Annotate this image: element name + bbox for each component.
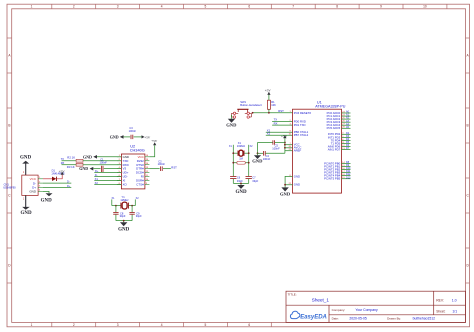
svg-text:4: 4 [161, 323, 163, 327]
svg-text:16MHz: 16MHz [237, 144, 246, 148]
svg-text:RX: RX [274, 121, 278, 125]
resistor R 1M [233, 157, 248, 165]
junction SW1-wire [252, 112, 254, 114]
wire TX to R2 [62, 160, 77, 162]
wire RST to PC6 [253, 112, 293, 114]
switch SW1 Button [232, 100, 262, 118]
ground flag GND left of C3 [110, 134, 130, 139]
wire GND flag to C1 [93, 168, 100, 170]
svg-text:XO: XO [123, 183, 128, 187]
junction R right [248, 162, 250, 164]
svg-text:2: 2 [73, 323, 75, 327]
wire diode to +5V [57, 175, 62, 179]
svg-text:33pF: 33pF [237, 179, 243, 183]
capacitor C1 100nF [100, 157, 108, 172]
svg-text:Date:: Date: [332, 316, 339, 320]
capacitor C6 33pF [230, 176, 243, 184]
wire D+ net [43, 186, 71, 188]
svg-text:4: 4 [161, 5, 163, 9]
svg-text:GND: GND [294, 174, 300, 178]
junction R left [232, 162, 234, 164]
svg-text:12MHz: 12MHz [120, 198, 129, 202]
svg-text:Sheet_1: Sheet_1 [312, 297, 330, 302]
wire rail to VCC [285, 144, 293, 146]
wire caps bottom [233, 182, 248, 184]
wire R2 to TXD [83, 160, 121, 162]
svg-text:100nF: 100nF [129, 129, 137, 133]
svg-text:30pF: 30pF [136, 214, 142, 218]
power flag +5V right of C3 [134, 135, 151, 139]
wire X1 to PB6 [266, 131, 293, 133]
junction crystal left [232, 152, 234, 154]
svg-text:D13: D13 [346, 176, 351, 179]
wire C5 corner down [257, 143, 259, 154]
svg-text:5: 5 [205, 5, 207, 9]
capacitor C3 100nF [129, 126, 137, 139]
resistor R3 1K [67, 163, 83, 169]
svg-text:6: 6 [248, 5, 250, 9]
junction crystal right [248, 152, 250, 154]
svg-text:GND: GND [21, 211, 33, 216]
power flag +5V to VCC rail [281, 134, 288, 138]
svg-text:ATMEGA328P-PU: ATMEGA328P-PU [315, 105, 345, 109]
wire X1 to XI [94, 180, 121, 182]
svg-text:3: 3 [117, 323, 119, 327]
power flag +5V above R1 [265, 89, 272, 95]
capacitor C7 33pF [246, 176, 259, 184]
wire X1 rail left [232, 145, 234, 176]
wire GND pins U1 [285, 176, 292, 184]
junction rail-VCC [284, 144, 286, 146]
svg-text:USB-BF90: USB-BF90 [3, 186, 16, 190]
wire +5V to R1 [268, 95, 270, 100]
svg-text:GND: GND [280, 192, 291, 197]
svg-text:GND: GND [20, 156, 32, 161]
svg-text:X1: X1 [95, 177, 99, 181]
wire D+ to UD+ [94, 172, 121, 174]
junction C4-GND [257, 152, 259, 154]
wire RX to PD1 [272, 124, 292, 126]
wire GND flag to U2 GND [97, 156, 121, 158]
crystal X1 body [233, 141, 248, 156]
resistor R2 1K [67, 155, 83, 162]
svg-text:33pF: 33pF [252, 179, 258, 183]
svg-text:30pF: 30pF [120, 214, 126, 218]
svg-text:6: 6 [248, 323, 250, 327]
svg-text:Company:: Company: [332, 308, 346, 312]
svg-text:+5V: +5V [265, 89, 272, 93]
capacitor C4 100nF [258, 151, 285, 161]
pins right stubs U1 [342, 111, 352, 180]
svg-text:PD1 TXD: PD1 TXD [294, 123, 306, 127]
IC U2 CH340G [117, 144, 149, 189]
svg-text:RST: RST [278, 109, 284, 113]
svg-text:3: 3 [117, 5, 119, 9]
wire GND pin CN1 [43, 191, 49, 193]
ground GND below crystal [235, 185, 247, 195]
svg-text:AREF: AREF [294, 149, 302, 153]
svg-text:GND: GND [252, 158, 263, 163]
wire DTR# to C2 [149, 168, 159, 170]
wire rail to AREF [285, 150, 293, 152]
svg-text:B: B [467, 124, 469, 128]
wire X2 rail right [248, 145, 250, 176]
svg-text:100nF: 100nF [272, 146, 280, 150]
svg-text:RX: RX [61, 161, 65, 165]
svg-text:Drawn By:: Drawn By: [387, 316, 401, 320]
svg-text:EasyEDA: EasyEDA [300, 315, 327, 321]
svg-text:TITLE:: TITLE: [288, 292, 297, 296]
junction R1-wire [268, 112, 270, 114]
svg-text:GND: GND [118, 228, 130, 233]
svg-text:PCINT5 PB5: PCINT5 PB5 [324, 177, 340, 181]
wire RX to R3 [62, 164, 77, 166]
svg-text:GND: GND [79, 166, 88, 171]
ground GND below Y1 [118, 222, 130, 232]
wire X2 to XO [94, 183, 121, 185]
crystal Y1 12MHz [112, 195, 140, 209]
svg-text:TX: TX [61, 157, 65, 161]
ground flag GND to U2 pin1 [83, 154, 97, 159]
svg-text:+5V: +5V [59, 169, 66, 173]
svg-text:100nF: 100nF [100, 161, 108, 165]
svg-text:8: 8 [336, 5, 338, 9]
svg-text:GND: GND [110, 134, 119, 139]
svg-text:9: 9 [380, 5, 382, 9]
svg-text:1M: 1M [239, 157, 243, 161]
svg-text:GND: GND [83, 154, 92, 159]
junction rail-AVCC [284, 147, 286, 149]
svg-text:+5V: +5V [144, 136, 151, 140]
svg-text:+5V: +5V [151, 139, 158, 143]
svg-text:R3 1K: R3 1K [67, 165, 75, 169]
svg-text:7: 7 [292, 5, 294, 9]
junction bottom [123, 220, 125, 222]
wire C2 to RST [163, 168, 171, 170]
svg-text:2020-05-05: 2020-05-05 [349, 316, 366, 320]
svg-text:PB7 XTAL2: PB7 XTAL2 [294, 133, 309, 137]
svg-text:100nF: 100nF [263, 157, 271, 161]
junction rail-C5 [284, 142, 286, 144]
connector CN1 USB-BF90 [3, 171, 43, 201]
svg-text:5: 5 [205, 323, 207, 327]
svg-text:GND: GND [235, 190, 247, 195]
ground GND at U1 [280, 187, 291, 196]
svg-text:100nF: 100nF [158, 162, 166, 166]
svg-text:GND: GND [226, 123, 237, 128]
svg-text:Your Company: Your Company [355, 308, 378, 312]
svg-text:CTS#: CTS# [136, 183, 144, 187]
svg-text:1: 1 [31, 5, 33, 9]
svg-text:R2 1K: R2 1K [67, 155, 75, 159]
wire TX to PD0 [272, 121, 292, 123]
svg-text:10: 10 [423, 5, 427, 9]
wire C1 to V3 [104, 168, 122, 170]
wire D- net [43, 182, 71, 184]
wire caps to GND [116, 220, 132, 222]
power flag +5V to U2 VCC [151, 139, 158, 146]
svg-text:GND: GND [41, 199, 53, 204]
ground GND at CN1 pin4 [41, 193, 53, 203]
svg-text:1: 1 [31, 323, 33, 327]
svg-text:10K: 10K [271, 103, 276, 107]
IC U1 ATMEGA328P-PU [289, 101, 346, 193]
svg-text:D+: D+ [67, 184, 71, 188]
svg-text:GND: GND [29, 190, 37, 194]
svg-text:D+: D+ [95, 169, 99, 173]
wire SW1 to GND [231, 115, 233, 119]
svg-text:+5V: +5V [281, 134, 288, 138]
wire X2 to PB7 [266, 134, 293, 136]
wire +5V to VCC [149, 145, 154, 157]
svg-text:1/1: 1/1 [452, 310, 457, 314]
svg-text:CH340G: CH340G [130, 148, 145, 153]
svg-text:buithehao1512: buithehao1512 [413, 316, 436, 320]
resistor R1 10K [268, 100, 277, 109]
svg-text:GND: GND [294, 183, 300, 187]
capacitor C8 30pF [113, 206, 126, 221]
svg-text:PC5 ADC5: PC5 ADC5 [327, 126, 341, 130]
EasyEDA logo [290, 311, 326, 320]
svg-text:B: B [8, 124, 10, 128]
svg-text:D-: D- [95, 173, 98, 177]
svg-text:AIN1 PD7: AIN1 PD7 [328, 148, 341, 152]
diode D1 1N4148WS [51, 168, 65, 181]
ground GND at SW1 [226, 119, 237, 128]
capacitor C5 100nF [258, 140, 285, 150]
wire R3 to RXD [83, 164, 121, 166]
svg-text:Button-Autodetect: Button-Autodetect [240, 103, 262, 107]
svg-text:PC6 RESET#: PC6 RESET# [294, 111, 312, 115]
ground GND above CN1 [20, 156, 32, 175]
junction crystal left [115, 205, 117, 207]
svg-text:RST: RST [171, 165, 177, 169]
junction bottom [240, 183, 242, 185]
junction GND pins [284, 184, 286, 186]
wire D- to UD- [94, 176, 121, 178]
svg-text:X2: X2 [95, 181, 99, 185]
capacitor C2 100nF [158, 159, 166, 171]
wire +5V rail [284, 138, 286, 153]
ground GND below CN1 [21, 195, 33, 215]
ground GND at C4 [252, 153, 263, 163]
wire VCC to diode [43, 178, 52, 180]
svg-text:D-: D- [67, 180, 70, 184]
capacitor C9 30pF [129, 206, 142, 221]
wire R1 to RST net [268, 109, 270, 113]
power flag +5V (USB) [59, 169, 66, 174]
svg-text:2: 2 [73, 5, 75, 9]
svg-text:REV:: REV: [436, 299, 444, 303]
wire rail to AVCC [285, 147, 293, 149]
junction crystal right [131, 205, 133, 207]
svg-text:X2: X2 [267, 132, 271, 136]
svg-text:Sheet:: Sheet: [436, 310, 445, 314]
svg-text:1.0: 1.0 [452, 299, 457, 303]
ground flag GND to C1 [79, 166, 93, 171]
